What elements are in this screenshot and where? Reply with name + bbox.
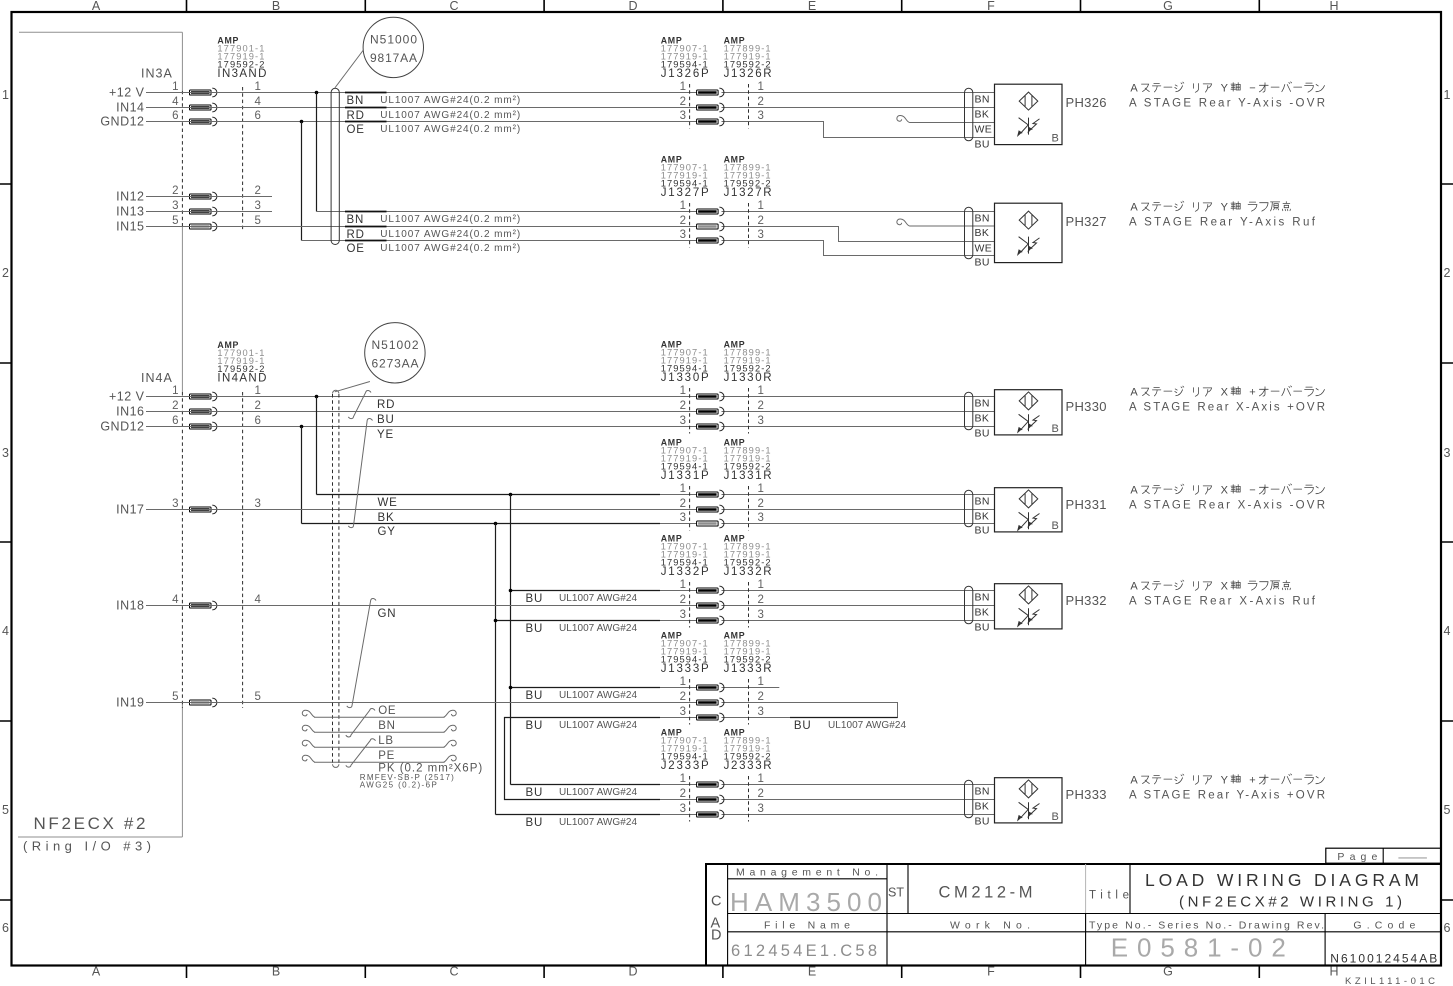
- svg-text:A STAGE Rear X-Axis +OVR: A STAGE Rear X-Axis +OVR: [1129, 402, 1325, 414]
- svg-text:2: 2: [255, 185, 261, 197]
- svg-text:IN3AND: IN3AND: [217, 68, 266, 80]
- wire BN +12V junction to J1326P pin1: [317, 92, 697, 94]
- svg-text:2: 2: [172, 400, 178, 412]
- Work No. header: [950, 920, 1030, 932]
- File Name header: [764, 920, 850, 932]
- spare wire PE: [302, 755, 456, 762]
- wire J1331R pin2 to sensor: [722, 509, 995, 511]
- balloon N51000: [363, 17, 423, 77]
- svg-text:J1332P: J1332P: [661, 566, 709, 578]
- svg-text:A STAGE Rear Y-Axis +OVR: A STAGE Rear Y-Axis +OVR: [1129, 790, 1325, 802]
- wire J1330R pin1 to sensor: [722, 396, 995, 398]
- photo sensor PH332 box: [995, 584, 1063, 629]
- connector IN3A name: [141, 67, 173, 81]
- twisted cable bundle dashed lines: [333, 390, 339, 767]
- wire IN12 stub: [146, 196, 272, 198]
- svg-text:Y: Y: [1221, 83, 1229, 95]
- J1333 pin 1 numbers: [680, 676, 764, 688]
- junction dot GND12 g3: [300, 425, 304, 429]
- sensor PH330 description JP: [1130, 386, 1324, 399]
- machine CM212-M: [939, 884, 1033, 902]
- svg-text:2: 2: [680, 400, 686, 412]
- svg-text:GN: GN: [378, 608, 397, 620]
- svg-text:1: 1: [680, 773, 686, 785]
- wire J1332R pin3 to sensor: [722, 620, 995, 622]
- spare wire LB: [302, 740, 456, 747]
- svg-text:3: 3: [172, 498, 178, 510]
- svg-text:IN4A: IN4A: [141, 371, 173, 385]
- svg-text:5: 5: [255, 691, 261, 703]
- svg-text:File Name: File Name: [764, 920, 850, 932]
- svg-text:6: 6: [255, 415, 261, 427]
- wire label BK: [378, 512, 395, 524]
- junction dot +12V column: [315, 91, 319, 95]
- wire J1332R pin1 to sensor: [722, 590, 995, 592]
- svg-text:OE: OE: [347, 124, 365, 136]
- svg-text:UL1007 AWG#24(0.2 mm²): UL1007 AWG#24(0.2 mm²): [380, 229, 520, 240]
- svg-text:4: 4: [172, 96, 179, 108]
- svg-text:PE: PE: [378, 750, 395, 762]
- svg-text:D: D: [628, 0, 637, 13]
- svg-text:BK: BK: [975, 227, 990, 239]
- wire label BU: [526, 817, 638, 829]
- svg-text:N51000: N51000: [370, 33, 417, 47]
- sensor PH326 description EN: [1129, 98, 1325, 110]
- svg-text:3: 3: [255, 498, 261, 510]
- svg-text:A: A: [1130, 387, 1138, 399]
- svg-text:3: 3: [680, 609, 686, 621]
- svg-text:3: 3: [758, 110, 764, 122]
- wire BU trunk to J1332P pin1: [511, 590, 697, 592]
- svg-text:Title: Title: [1089, 890, 1129, 902]
- svg-text:5: 5: [255, 215, 261, 227]
- svg-text:Y: Y: [1221, 202, 1229, 214]
- J1332 pin 2 splice contact: [697, 601, 724, 610]
- photo sensor PH326 box: [995, 84, 1063, 144]
- input IN19 pin 5 numbers: [172, 691, 261, 703]
- title (NF2ECX#2 WIRING 1): [1179, 894, 1402, 911]
- svg-text:J1333R: J1333R: [724, 663, 772, 675]
- svg-text:IN12: IN12: [116, 190, 144, 204]
- input GND12 label: [100, 420, 144, 434]
- wire J1331R pin3 to sensor: [722, 523, 995, 525]
- J1331 pin 2 splice contact: [697, 505, 724, 514]
- svg-text:2: 2: [255, 400, 261, 412]
- input IN12 crimp contact: [190, 192, 217, 201]
- J1327 pin 2 numbers: [680, 215, 764, 227]
- sensor PH331 description EN: [1129, 500, 1325, 512]
- wire GND12 to junction: [146, 121, 302, 123]
- svg-text:3: 3: [758, 229, 764, 241]
- svg-text:+: +: [1249, 387, 1255, 399]
- svg-text:3: 3: [172, 200, 178, 212]
- svg-text:3: 3: [680, 512, 686, 524]
- sensor PH330 description EN: [1129, 402, 1325, 414]
- svg-text:3: 3: [680, 803, 686, 815]
- wire J1327R pin3 to PH327 BU: [722, 241, 995, 256]
- g code value N610012454AB: [1330, 952, 1437, 966]
- J1331 pin 3 numbers: [680, 512, 764, 524]
- sensor PH331 description JP: [1130, 484, 1324, 497]
- sensor PH332 slot diamond symbol: [1019, 586, 1038, 604]
- wire GND12 trunk x=495.5: [495, 524, 497, 815]
- svg-text:D: D: [711, 928, 721, 944]
- sensor PH326 lead label WE: [975, 124, 993, 136]
- sensor PH327 lead label BK: [975, 227, 990, 239]
- svg-text:6: 6: [172, 110, 178, 122]
- connector J1330R part labels: [724, 340, 772, 385]
- svg-text:BU: BU: [975, 816, 990, 828]
- svg-text:ST: ST: [888, 886, 904, 900]
- connector J1333 mating plane dashed lines: [690, 679, 749, 725]
- J1327 pin 3 splice contact: [697, 236, 724, 245]
- svg-text:3: 3: [1444, 446, 1451, 460]
- svg-text:2: 2: [758, 691, 764, 703]
- svg-text:J1327P: J1327P: [661, 187, 709, 199]
- wire label GY: [378, 526, 396, 538]
- wire J1326R pin1 to PH326 BN: [722, 92, 995, 94]
- svg-text:J1331R: J1331R: [724, 470, 772, 482]
- svg-text:Type No.- Series No.- Drawing: Type No.- Series No.- Drawing Rev.: [1089, 920, 1324, 932]
- sensor PH331 B mark: [1052, 520, 1059, 532]
- input IN13 pin 3 numbers: [172, 200, 261, 212]
- svg-text:5: 5: [2, 803, 9, 817]
- sensor PH326 lead label BK: [975, 109, 990, 121]
- svg-text:3: 3: [680, 415, 686, 427]
- input IN14 crimp contact: [190, 103, 217, 112]
- svg-text:3: 3: [758, 512, 764, 524]
- photo sensor PH327 box: [995, 203, 1063, 262]
- input IN16 label: [116, 405, 144, 419]
- sensor PH332 photodetector symbol: [1018, 608, 1040, 626]
- svg-text:BN: BN: [975, 398, 990, 410]
- svg-text:LOAD WIRING DIAGRAM: LOAD WIRING DIAGRAM: [1145, 870, 1419, 890]
- twist mark g3-g4: [348, 418, 372, 527]
- svg-text:C: C: [711, 894, 721, 910]
- svg-text:IN16: IN16: [116, 405, 144, 419]
- connector IN4A mating dashes: [182, 392, 242, 708]
- J1331 pin 2 numbers: [680, 498, 764, 510]
- svg-text:WE: WE: [975, 243, 993, 255]
- sensor PH330 lead label BK: [975, 413, 990, 425]
- drawing no E0581-02: [1111, 933, 1286, 963]
- input +12 V label: [109, 86, 145, 100]
- spare wire OE: [302, 710, 456, 717]
- grid column labels top: [92, 0, 1339, 13]
- svg-text:A STAGE Rear X-Axis Ruf: A STAGE Rear X-Axis Ruf: [1129, 596, 1316, 608]
- svg-text:B: B: [1052, 423, 1059, 435]
- svg-text:GY: GY: [378, 526, 396, 538]
- twist mark g5-g6: [347, 598, 376, 707]
- svg-text:X: X: [1221, 581, 1229, 593]
- svg-text:1: 1: [2, 88, 9, 102]
- connector J1330 mating plane dashed lines: [690, 388, 749, 434]
- twist mark spare2: [346, 739, 376, 767]
- (Ring I/O #3) label: [23, 839, 151, 854]
- J1330 pin 2 numbers: [680, 400, 764, 412]
- input IN16 crimp contact: [190, 407, 217, 416]
- svg-text:J1331P: J1331P: [661, 470, 709, 482]
- svg-text:BU: BU: [975, 622, 990, 634]
- sensor PH330 photodetector symbol: [1018, 414, 1040, 432]
- wire J1330R pin3 to sensor: [722, 426, 995, 428]
- svg-text:UL1007 AWG#24: UL1007 AWG#24: [559, 817, 637, 828]
- svg-text:5: 5: [172, 215, 178, 227]
- wire J1330R pin2 to sensor: [722, 411, 995, 413]
- svg-text:PH332: PH332: [1066, 593, 1108, 608]
- svg-text:B: B: [272, 0, 280, 13]
- svg-text:BN: BN: [975, 94, 990, 106]
- svg-text:6273AA: 6273AA: [372, 357, 419, 371]
- svg-text:A: A: [1130, 202, 1138, 214]
- svg-text:WE: WE: [975, 124, 993, 136]
- junction dot BU trunk J1333 pin1: [509, 686, 513, 690]
- sensor PH330 B mark: [1052, 423, 1059, 435]
- svg-text:UL1007 AWG#24: UL1007 AWG#24: [559, 623, 637, 634]
- svg-text:A STAGE Rear Y-Axis Ruf: A STAGE Rear Y-Axis Ruf: [1129, 217, 1316, 229]
- sensor PH327 description EN: [1129, 217, 1316, 229]
- J1333 pin 1 splice contact: [697, 683, 724, 692]
- junction dot GND12 column: [300, 120, 304, 124]
- svg-text:BU: BU: [794, 720, 812, 732]
- cable spec PK label: [378, 763, 482, 775]
- svg-text:UL1007 AWG#24(0.2 mm²): UL1007 AWG#24(0.2 mm²): [380, 110, 520, 121]
- input IN14 label: [116, 101, 144, 115]
- svg-text:BU: BU: [526, 690, 544, 702]
- svg-text:IN18: IN18: [116, 599, 144, 613]
- sensor PH327 slot diamond symbol: [1019, 211, 1038, 229]
- svg-text:UL1007 AWG#24(0.2 mm²): UL1007 AWG#24(0.2 mm²): [380, 124, 520, 135]
- sensor PH332 lead label BN: [975, 592, 990, 604]
- svg-text:BU: BU: [526, 623, 544, 635]
- svg-text:KZIL111-01C: KZIL111-01C: [1345, 976, 1435, 986]
- wire label YE: [377, 429, 394, 441]
- svg-text:F: F: [987, 0, 995, 13]
- input IN18 label: [116, 599, 144, 613]
- J1331 pin 1 splice contact: [697, 490, 724, 499]
- input IN16 pin 2 numbers: [172, 400, 261, 412]
- svg-text:2: 2: [1444, 266, 1451, 280]
- svg-text:BN: BN: [347, 95, 365, 107]
- svg-text:D: D: [628, 965, 637, 979]
- svg-text:NF2ECX #2: NF2ECX #2: [34, 814, 146, 833]
- input GND12 label: [100, 115, 144, 129]
- svg-text:2: 2: [680, 788, 686, 800]
- input +12 V pin 1 numbers: [172, 385, 261, 397]
- svg-text:−: −: [1249, 83, 1255, 95]
- wire GND12 vertical drop: [301, 122, 303, 241]
- input IN17 crimp contact: [190, 505, 217, 514]
- svg-text:1: 1: [680, 200, 686, 212]
- wire BU trunk corner to J2333P pin1: [511, 784, 697, 786]
- sensor PH333 description EN: [1129, 790, 1325, 802]
- twist mark g3 pair1: [348, 390, 371, 418]
- file name value: [731, 942, 877, 960]
- J1332 pin 1 numbers: [680, 579, 764, 591]
- photo sensor PH326 shield oval: [965, 88, 973, 141]
- connector J1327P part labels: [661, 155, 709, 200]
- wire label WE: [378, 497, 398, 509]
- junction dot WE trunk: [509, 493, 513, 497]
- svg-text:1: 1: [680, 676, 686, 688]
- svg-text:1: 1: [1444, 88, 1451, 102]
- svg-text:2: 2: [680, 691, 686, 703]
- svg-text:C: C: [449, 965, 458, 979]
- wire +12V trunk x=510.5: [510, 495, 512, 785]
- svg-text:IN17: IN17: [116, 503, 144, 517]
- junction dot GY trunk: [494, 522, 498, 526]
- svg-text:A: A: [92, 0, 101, 13]
- svg-text:UL1007 AWG#24(0.2 mm²): UL1007 AWG#24(0.2 mm²): [380, 243, 520, 254]
- title block outline: [706, 864, 1441, 966]
- J2333 pin 2 splice contact: [697, 795, 724, 804]
- J1330 pin 1 splice contact: [697, 392, 724, 401]
- J1332 pin 1 splice contact: [697, 586, 724, 595]
- spare wire label BN: [378, 720, 396, 732]
- svg-text:BU: BU: [975, 257, 990, 269]
- connector J2333R part labels: [724, 728, 772, 773]
- wire J1326R pin2 to PH326 BK: [722, 107, 995, 109]
- sensor PH330 lead label BU: [975, 428, 990, 440]
- J1332 pin 2 numbers: [680, 594, 764, 606]
- svg-text:5: 5: [172, 691, 178, 703]
- sensor PH333 description JP: [1130, 774, 1324, 787]
- J1326 pin 2 splice contact: [697, 103, 724, 112]
- connector J1327R part labels: [724, 155, 772, 200]
- wire BU trunk to J1333P pin1: [511, 687, 697, 689]
- sensor PH331 slot diamond symbol: [1019, 490, 1038, 508]
- svg-text:PH330: PH330: [1066, 399, 1108, 414]
- sensor PH333 slot diamond symbol: [1019, 780, 1038, 798]
- sensor PH326 lead label BU: [975, 139, 990, 151]
- svg-text:G: G: [1163, 0, 1173, 13]
- wire GND12 g3 to junction: [146, 426, 302, 428]
- svg-text:1: 1: [758, 200, 764, 212]
- wire +12V to junction: [146, 92, 317, 94]
- wire OE to J1327P pin3: [302, 240, 697, 242]
- sensor PH331 photodetector symbol: [1018, 512, 1040, 530]
- svg-text:1: 1: [172, 385, 178, 397]
- svg-text:2: 2: [680, 594, 686, 606]
- sensor PH332 description EN: [1129, 596, 1316, 608]
- svg-text:B: B: [272, 965, 280, 979]
- sensor PH333 lead label BK: [975, 801, 990, 813]
- connector J1331 mating plane dashed lines: [690, 486, 749, 531]
- svg-text:3: 3: [758, 803, 764, 815]
- wire label GN: [378, 608, 397, 620]
- sensor PH327 reference label: [1066, 214, 1108, 229]
- wire RD IN14 to J1326P pin2: [146, 107, 697, 109]
- sensor PH331 lead label BK: [975, 511, 990, 523]
- input +12 V pin 1 numbers: [172, 81, 261, 93]
- photo sensor PH332 shield oval: [965, 586, 973, 624]
- svg-text:PH331: PH331: [1066, 497, 1108, 512]
- svg-text:H: H: [1329, 965, 1338, 979]
- svg-text:J1332R: J1332R: [724, 566, 772, 578]
- input IN15 crimp contact: [190, 222, 217, 231]
- svg-text:1: 1: [758, 676, 764, 688]
- Title label: [1089, 890, 1129, 902]
- svg-text:BK: BK: [378, 512, 395, 524]
- sensor PH333 lead label BU: [975, 816, 990, 828]
- svg-text:9817AA: 9817AA: [370, 51, 417, 65]
- svg-text:RD: RD: [347, 229, 365, 241]
- svg-text:WE: WE: [378, 497, 398, 509]
- photo sensor PH330 shield oval: [965, 392, 973, 430]
- spare wire label OE: [378, 705, 396, 717]
- sensor PH326 reference label: [1066, 95, 1108, 110]
- svg-text:J1333P: J1333P: [661, 663, 709, 675]
- title LOAD WIRING DIAGRAM: [1145, 870, 1419, 890]
- svg-text:A: A: [1130, 581, 1138, 593]
- wire GND12 drop to GY g4: [301, 427, 303, 524]
- wire label BU: [526, 623, 638, 635]
- svg-text:J1326R: J1326R: [724, 68, 772, 80]
- svg-text:OE: OE: [347, 243, 365, 255]
- grid column labels bottom: [92, 965, 1339, 979]
- svg-text:Y: Y: [1221, 775, 1229, 787]
- input +12 V crimp contact: [190, 392, 217, 401]
- J1327 pin 3 numbers: [680, 229, 764, 241]
- input IN13 label: [116, 205, 144, 219]
- sensor PH327 lead label BU: [975, 257, 990, 269]
- cable spec AWG25 label: [360, 781, 437, 790]
- sensor PH332 reference label: [1066, 593, 1108, 608]
- svg-text:BN: BN: [975, 213, 990, 225]
- input GND12 crimp contact: [190, 117, 217, 126]
- wire BN to J1327P pin1: [317, 211, 697, 213]
- J2333 pin 1 splice contact: [697, 780, 724, 789]
- svg-text:IN3A: IN3A: [141, 67, 173, 81]
- svg-text:A STAGE Rear X-Axis -OVR: A STAGE Rear X-Axis -OVR: [1129, 500, 1325, 512]
- svg-text:X: X: [1221, 387, 1229, 399]
- J1333 pin 3 splice contact: [697, 713, 724, 722]
- svg-text:2: 2: [758, 400, 764, 412]
- wire GY to J1331P pin3: [302, 523, 697, 525]
- spare wire label PE: [378, 750, 395, 762]
- wire J1326R pin3 to PH326 BU: [722, 122, 995, 138]
- svg-text:BU: BU: [526, 817, 544, 829]
- svg-text:1: 1: [758, 81, 764, 93]
- wire J2333R pin1 to PH333: [722, 784, 995, 786]
- sensor PH326 B mark: [1052, 133, 1059, 145]
- sensor PH330 lead label BN: [975, 398, 990, 410]
- svg-text:4: 4: [172, 594, 179, 606]
- svg-text:BN: BN: [347, 214, 365, 226]
- photo sensor PH330 box: [995, 390, 1063, 435]
- connector IN3A mating dashes: [182, 87, 242, 231]
- sensor PH333 reference label: [1066, 787, 1108, 802]
- svg-text:F: F: [987, 965, 995, 979]
- input IN18 crimp contact: [190, 601, 217, 610]
- svg-text:C: C: [449, 0, 458, 13]
- wire label BU: [526, 787, 638, 799]
- spare wire label LB: [378, 735, 394, 747]
- J2333 pin 2 numbers: [680, 788, 764, 800]
- input +12 V crimp contact: [190, 88, 217, 97]
- junction dot +12V g3: [315, 395, 319, 399]
- svg-text:BU: BU: [975, 428, 990, 440]
- management no. header: [736, 867, 878, 879]
- svg-text:UL1007 AWG#24: UL1007 AWG#24: [828, 720, 906, 731]
- svg-text:UL1007 AWG#24(0.2 mm²): UL1007 AWG#24(0.2 mm²): [380, 214, 520, 225]
- wire J1333P pin3 to J2333P pin2 detour: [505, 718, 697, 800]
- svg-text:GND12: GND12: [100, 420, 144, 434]
- svg-text:BN: BN: [378, 720, 396, 732]
- wire label RD: [345, 227, 520, 242]
- wire label BU: [526, 720, 638, 732]
- input IN15 label: [116, 220, 144, 234]
